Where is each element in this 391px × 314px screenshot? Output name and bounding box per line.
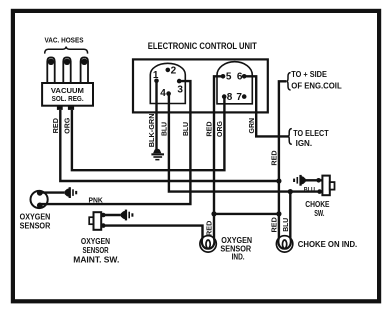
label GRN [249, 118, 256, 134]
svg-text:ORG: ORG [65, 117, 72, 134]
wire from oxygen sensor to maintenance connector [40, 191, 65, 193]
label TO + SIDE [291, 70, 327, 79]
pin 4 [160, 88, 171, 99]
svg-text:RED: RED [207, 221, 214, 236]
label BLU (pin 4 wire) [162, 122, 169, 136]
label CHOKE ON IND. [298, 240, 357, 249]
label PNK [88, 198, 102, 205]
wire from maint switch lower terminal to oxygen sensor indicator [103, 226, 202, 239]
ECU connector B (pins 5-8) [217, 62, 252, 104]
pin 6 [237, 72, 247, 83]
label ELECTRONIC CONTROL UNIT [148, 41, 257, 52]
wire BLU from pin 3 right, down, then left as PNK to oxygen sensor [40, 81, 191, 204]
svg-text:RED: RED [53, 118, 60, 133]
svg-text:BLU: BLU [304, 186, 316, 193]
svg-text:BLU: BLU [283, 218, 290, 232]
svg-text:IND.: IND. [232, 253, 245, 262]
label OF ENG.COIL [291, 82, 341, 91]
svg-text:5: 5 [226, 72, 232, 83]
svg-text:4: 4 [160, 88, 166, 99]
ground symbol [151, 149, 164, 161]
ECU connector A (pins 1-4) [150, 63, 185, 103]
label RED (choke lamp left wire) [272, 217, 279, 232]
svg-text:6: 6 [237, 72, 243, 83]
svg-text:RED: RED [207, 121, 214, 136]
svg-text:PNK: PNK [88, 198, 102, 205]
wire RED from vacuum sol reg down and right to +coil red line [60, 110, 279, 181]
label RED (eng coil wire) [272, 150, 279, 165]
brace to elect ign [288, 129, 292, 145]
oxygen sensor body [30, 190, 47, 208]
label RED (oxygen sensor ind wire) [207, 221, 214, 236]
junction dot red run / coil wire [276, 178, 281, 183]
terminal right of vacuum sol reg [68, 106, 74, 110]
pin 5 [221, 72, 232, 83]
wire from choke stub to choke switch upper terminal [305, 179, 319, 181]
svg-text:1: 1 [153, 70, 159, 81]
junction dot blu run / choke lamp tap [288, 189, 293, 194]
connector stub at oxygen sensor [65, 187, 78, 198]
svg-text:IGN.: IGN. [296, 139, 313, 148]
label IGN. [296, 139, 313, 148]
vacuum hose 3 [81, 57, 88, 84]
vacuum hose 2 [63, 57, 70, 84]
wire BLU tap down to choke on indicator [289, 192, 291, 239]
svg-text:ELECTRONIC CONTROL UNIT: ELECTRONIC CONTROL UNIT [148, 41, 257, 52]
label ORG (vacuum wire) [65, 117, 72, 134]
svg-text:SENSOR: SENSOR [83, 246, 109, 255]
label OXYGEN SENSOR IND. [220, 236, 252, 262]
wire BLU from pin 4 down and right to choke switch [169, 94, 320, 192]
svg-text:BLU: BLU [183, 122, 190, 136]
pin 8 [222, 92, 233, 103]
svg-text:SW.: SW. [314, 209, 324, 218]
junction dot bus left [211, 211, 216, 216]
vacuum solenoid regulator box [42, 83, 93, 106]
svg-text:SENSOR: SENSOR [20, 222, 51, 231]
svg-text:GRN: GRN [249, 118, 256, 134]
terminal left of vacuum sol reg [57, 106, 63, 110]
pin 1 [153, 70, 159, 83]
svg-text:8: 8 [227, 92, 233, 103]
vacuum hose 1 [47, 57, 54, 84]
svg-text:MAINT. SW.: MAINT. SW. [73, 255, 119, 264]
wire RED from + side of eng coil down to choke on indicator [279, 81, 286, 238]
label BLU (pin 3 wire) [183, 122, 190, 136]
junction dot bus right [276, 211, 281, 216]
pin 2 [166, 66, 177, 77]
svg-text:CHOKE: CHOKE [305, 200, 330, 209]
pin 7 [236, 92, 246, 103]
wire BLK-GRN from pin 1 down to ground [155, 81, 157, 150]
svg-text:BLK-GRN: BLK-GRN [149, 113, 156, 147]
svg-text:RED: RED [272, 150, 279, 165]
svg-text:3: 3 [177, 85, 183, 96]
label OXYGEN (sensor) [20, 212, 51, 230]
svg-text:VAC. HOSES: VAC. HOSES [45, 36, 84, 45]
svg-text:CHOKE ON IND.: CHOKE ON IND. [298, 240, 357, 249]
svg-text:OXYGEN: OXYGEN [81, 237, 111, 246]
svg-text:OXYGEN: OXYGEN [20, 212, 51, 221]
label VAC. HOSES [45, 36, 84, 45]
wire RED from pin 5 down to oxygen sensor indicator [214, 76, 223, 238]
svg-text:OF ENG.COIL: OF ENG.COIL [291, 82, 341, 91]
label OXYGEN SENSOR MAINT. SW. [73, 237, 119, 264]
label BLU (choke lamp right wire) [283, 218, 290, 232]
choke on indicator lamp [276, 236, 292, 252]
svg-text:RED: RED [272, 217, 279, 232]
connector stub at maint switch [121, 210, 133, 221]
electronic control unit box [133, 59, 268, 112]
label BLU (choke switch) [304, 186, 316, 193]
label BLK-GRN [149, 113, 156, 147]
svg-text:BLU: BLU [162, 122, 169, 136]
label RED (pin 5 wire) [207, 121, 214, 136]
wire ORG from vacuum sol reg down and right to ECU pin 8 [72, 97, 225, 171]
svg-text:TO ELECT: TO ELECT [293, 129, 328, 138]
label RED (vacuum wire) [53, 118, 60, 133]
wire bus red between indicator feeds [214, 213, 279, 215]
brace over vac hoses [45, 47, 88, 54]
brace to + side of eng coil [286, 73, 290, 90]
connector stub at choke switch (mirrored) [293, 175, 306, 186]
svg-text:ORG: ORG [217, 120, 224, 137]
svg-text:7: 7 [236, 92, 242, 103]
svg-text:TO + SIDE: TO + SIDE [291, 70, 327, 79]
choke switch body [316, 176, 334, 196]
wire from maint switch upper terminal to stub [103, 214, 121, 216]
oxygen sensor indicator lamp [200, 236, 216, 252]
svg-text:SOL. REG.: SOL. REG. [52, 94, 84, 103]
label CHOKE SW. [305, 200, 330, 218]
oxygen sensor maint switch body [89, 212, 105, 230]
label TO ELECT [293, 129, 328, 138]
svg-text:2: 2 [171, 66, 177, 77]
wire GRN from pin 6 right and down to elect ign [244, 76, 289, 136]
pin 3 [177, 79, 184, 96]
label ORG (pin 8 wire) [217, 120, 224, 137]
